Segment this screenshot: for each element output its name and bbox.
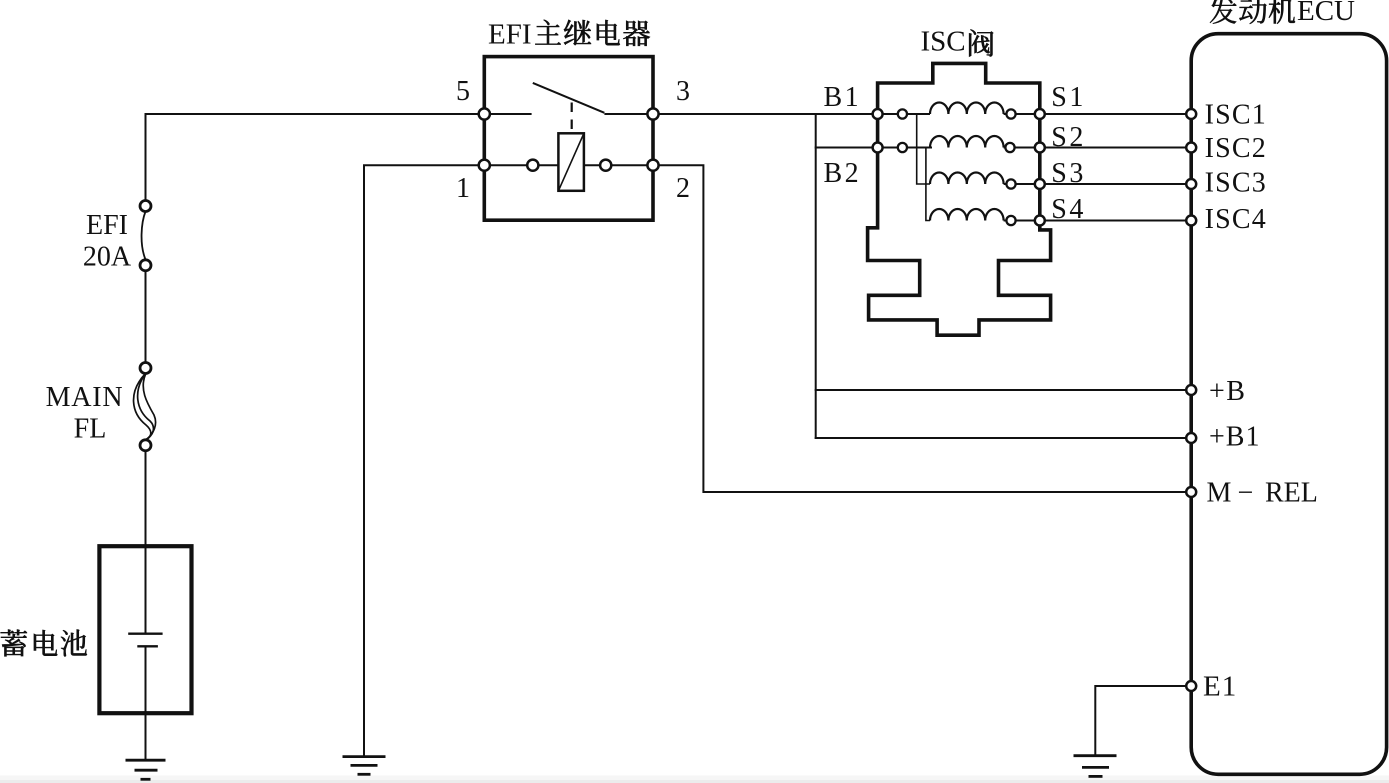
- svg-text:S4: S4: [1051, 194, 1086, 225]
- ground G1 below battery: [126, 760, 166, 779]
- wire S2 to ISC2: [1040, 147, 1191, 149]
- ISC valve outline: [868, 63, 1051, 335]
- battery long plate: [128, 633, 162, 635]
- relay actuator dashed link: [571, 103, 573, 132]
- valve pin S4: [1035, 216, 1045, 226]
- coil W1 tail: [1004, 113, 1040, 115]
- svg-text:ISC: ISC: [921, 26, 966, 58]
- svg-text:1: 1: [456, 173, 470, 204]
- ECU pin +B1: [1186, 433, 1196, 443]
- wire E1 to ground: [1095, 686, 1191, 755]
- svg-text:S2: S2: [1051, 122, 1086, 153]
- relay pin 5: [479, 108, 490, 119]
- valve pin S1: [1035, 109, 1045, 119]
- label 蓄电池: [1, 630, 87, 657]
- svg-text:M: M: [1207, 478, 1232, 509]
- svg-text:B1: B1: [824, 82, 862, 113]
- coil W2 tail: [1004, 147, 1040, 149]
- coil W1: [930, 102, 1004, 114]
- relay coil diagonal: [558, 133, 584, 191]
- relay pin 3: [647, 108, 658, 119]
- valve pin S3: [1035, 179, 1045, 189]
- svg-text:FL: FL: [74, 414, 107, 445]
- svg-text:S3: S3: [1051, 158, 1086, 189]
- valve internal branch B1 to coil 3: [917, 114, 930, 184]
- coil W4 tail: [1004, 220, 1040, 222]
- svg-text:ISC4: ISC4: [1205, 204, 1267, 235]
- svg-text:2: 2: [676, 173, 690, 204]
- coil W3 tail: [1004, 183, 1040, 185]
- svg-text:ECU: ECU: [1297, 0, 1355, 27]
- label 发动机ECU: [1210, 0, 1295, 24]
- wire +B row: [816, 389, 1191, 391]
- ECU pin M-REL: [1186, 487, 1196, 497]
- svg-text:MAIN: MAIN: [46, 382, 124, 413]
- wire junction riser to +B1: [815, 114, 817, 438]
- coil W2 terminal: [1005, 143, 1014, 152]
- wire relay pin 1 to ground riser: [364, 165, 484, 755]
- svg-text:−: −: [1238, 478, 1254, 509]
- ECU pin E1: [1186, 681, 1196, 691]
- relay bottom row wire pin 1 to pin 2: [484, 164, 653, 166]
- battery short plate: [137, 645, 158, 647]
- svg-text:20A: 20A: [83, 242, 132, 273]
- coil W3: [930, 172, 1004, 184]
- fusible link MAIN FL: [134, 363, 156, 451]
- fuse EFI 20A: [140, 201, 151, 271]
- ECU pin ISC2: [1186, 143, 1196, 153]
- valve internal wire B1 row: [878, 113, 930, 115]
- relay coil terminal circles: [527, 160, 538, 171]
- valve internal branch B2 to coil 4: [926, 148, 930, 221]
- ECU pin +B: [1186, 385, 1196, 395]
- svg-text:ISC2: ISC2: [1205, 133, 1267, 164]
- relay switch fixed contact from pin 5: [484, 113, 531, 115]
- coil W4: [930, 209, 1004, 221]
- wire relay pin 2 down to M-REL row: [653, 165, 1191, 492]
- wire S3 to ISC3: [1040, 183, 1191, 185]
- wire S1 to ISC1: [1040, 113, 1191, 115]
- coil W2: [930, 136, 1004, 148]
- relay pin 2: [647, 160, 658, 171]
- wire +B1 row: [816, 437, 1191, 439]
- relay EFI main relay box: [484, 57, 653, 221]
- valve pin B1: [873, 109, 883, 119]
- wire branch to valve pin B2: [816, 147, 878, 149]
- ECU pin ISC1: [1186, 109, 1196, 119]
- ground G3 below ECU pin E1: [1074, 756, 1117, 777]
- svg-text:3: 3: [676, 76, 690, 107]
- wire inside battery to plates: [145, 547, 147, 713]
- svg-text:EFI: EFI: [86, 210, 128, 241]
- ground G2 below relay pin 1 riser: [343, 757, 386, 775]
- relay pin 1: [479, 160, 490, 171]
- wire battery bottom to ground: [145, 713, 147, 759]
- svg-text:+B1: +B1: [1209, 422, 1260, 453]
- wire fusible link bottom to battery top: [145, 445, 147, 547]
- wire battery riser to relay pin 5 (top row): [146, 114, 485, 206]
- valve internal wire B2 row: [878, 147, 932, 149]
- valve inner terminal b2: [898, 143, 907, 152]
- relay switch armature: [533, 83, 605, 113]
- coil W1 terminal: [1006, 109, 1015, 118]
- svg-text:ISC3: ISC3: [1205, 168, 1267, 199]
- ECU pin ISC4: [1186, 216, 1196, 226]
- svg-text:E1: E1: [1203, 671, 1237, 703]
- bottom scan shadow band: [0, 776, 1389, 783]
- relay coil box: [558, 133, 584, 191]
- svg-text:EFI: EFI: [488, 19, 532, 51]
- valve inner terminal b1: [898, 109, 907, 118]
- coil W4 terminal: [1006, 216, 1015, 225]
- wire relay pin 3 to valve pin B1: [653, 113, 878, 115]
- svg-text:5: 5: [456, 76, 470, 107]
- svg-text:B2: B2: [824, 158, 862, 189]
- svg-text:S1: S1: [1051, 82, 1086, 113]
- wire fuse bottom to fusible link top: [145, 265, 147, 368]
- ECU pin ISC3: [1186, 179, 1196, 189]
- svg-text:REL: REL: [1265, 478, 1318, 509]
- valve pin S2: [1035, 143, 1045, 153]
- coil W3 terminal: [1006, 179, 1015, 188]
- relay switch contact to pin 3: [604, 113, 653, 115]
- battery box: [99, 546, 191, 713]
- svg-text:ISC1: ISC1: [1205, 100, 1267, 131]
- wire S4 to ISC4: [1040, 220, 1191, 222]
- valve pin B2: [873, 143, 883, 153]
- svg-text:+B: +B: [1209, 376, 1246, 407]
- ECU box 发动机ECU: [1191, 34, 1386, 775]
